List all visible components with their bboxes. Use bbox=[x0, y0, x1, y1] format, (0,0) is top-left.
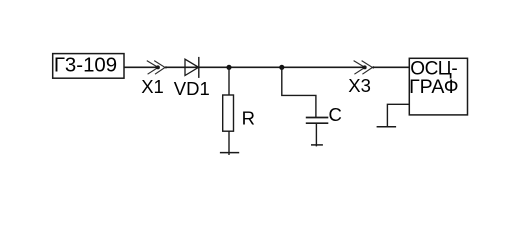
diode VD1 bbox=[185, 57, 199, 78]
resistor R bbox=[223, 95, 234, 131]
connector X1 bbox=[147, 61, 167, 75]
ground bar under oscillograph bbox=[377, 126, 397, 128]
junction node dot 2 bbox=[279, 65, 284, 70]
connector X3 bbox=[354, 61, 374, 75]
box G3-109 generator bbox=[53, 54, 124, 79]
svg-text:VD1: VD1 bbox=[174, 78, 210, 99]
svg-text:R: R bbox=[242, 107, 255, 128]
wire from diode to X3 bbox=[199, 66, 365, 68]
wire resistor to ground bbox=[228, 131, 230, 155]
box oscillograph bbox=[409, 58, 467, 115]
junction node dot 1 bbox=[226, 65, 231, 70]
ground bar under capacitor bbox=[311, 144, 323, 146]
svg-text:X1: X1 bbox=[141, 76, 164, 97]
svg-text:Г3-109: Г3-109 bbox=[54, 54, 117, 76]
svg-text:X3: X3 bbox=[348, 75, 371, 96]
ground bar under resistor bbox=[220, 152, 239, 154]
wire capacitor to ground bbox=[315, 123, 317, 146]
wire from G3-109 to X1 bbox=[124, 66, 158, 68]
wire from X3 to oscillograph box bbox=[373, 66, 409, 68]
wire junction1 down to resistor bbox=[228, 67, 230, 95]
wire from X1 to diode bbox=[166, 66, 199, 68]
svg-text:ГРАФ: ГРАФ bbox=[409, 76, 458, 98]
wire junction2 down and right to capacitor bbox=[282, 67, 316, 117]
ground wire from oscillograph bbox=[387, 104, 409, 127]
svg-text:C: C bbox=[329, 104, 342, 125]
capacitor C plates bbox=[306, 118, 329, 124]
